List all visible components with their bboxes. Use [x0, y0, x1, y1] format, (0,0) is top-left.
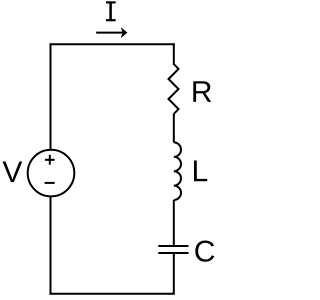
- capacitor C: [158, 246, 188, 253]
- wire left upper: [50, 44, 52, 150]
- label V: [3, 161, 23, 182]
- voltage source V: [28, 150, 75, 197]
- wire right upper: [173, 44, 175, 64]
- wire right lower: [173, 253, 175, 294]
- wire right mid1: [173, 114, 175, 142]
- label L: [194, 161, 207, 182]
- inductor L: [174, 142, 181, 200]
- current label I: [106, 2, 116, 20]
- resistor R: [169, 64, 179, 114]
- label C: [195, 241, 214, 262]
- current arrow: [96, 27, 127, 38]
- wire bottom: [51, 293, 174, 295]
- wire left lower: [50, 196, 52, 293]
- wire right mid2: [173, 200, 175, 246]
- wire top: [51, 43, 174, 45]
- label R: [193, 81, 211, 102]
